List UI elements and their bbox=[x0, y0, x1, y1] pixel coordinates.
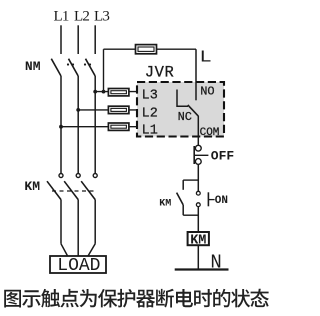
svg-text:KM: KM bbox=[159, 198, 171, 209]
svg-text:L3: L3 bbox=[142, 88, 158, 103]
svg-text:NC: NC bbox=[178, 110, 192, 124]
svg-text:ON: ON bbox=[215, 195, 228, 207]
svg-text:LOAD: LOAD bbox=[57, 256, 100, 276]
svg-text:JVR: JVR bbox=[145, 63, 175, 81]
svg-text:L2: L2 bbox=[142, 106, 158, 121]
svg-text:KM: KM bbox=[190, 233, 206, 248]
svg-text:L2: L2 bbox=[74, 9, 89, 25]
svg-text:N: N bbox=[210, 251, 221, 273]
svg-text:L: L bbox=[199, 47, 211, 67]
svg-text:L3: L3 bbox=[94, 9, 109, 25]
svg-text:L1: L1 bbox=[142, 124, 158, 139]
svg-text:KM: KM bbox=[24, 179, 40, 194]
svg-text:NM: NM bbox=[25, 59, 41, 74]
svg-text:NO: NO bbox=[200, 85, 214, 99]
svg-text:L1: L1 bbox=[53, 9, 68, 25]
svg-text:COM: COM bbox=[200, 127, 220, 139]
svg-text:OFF: OFF bbox=[211, 149, 235, 164]
